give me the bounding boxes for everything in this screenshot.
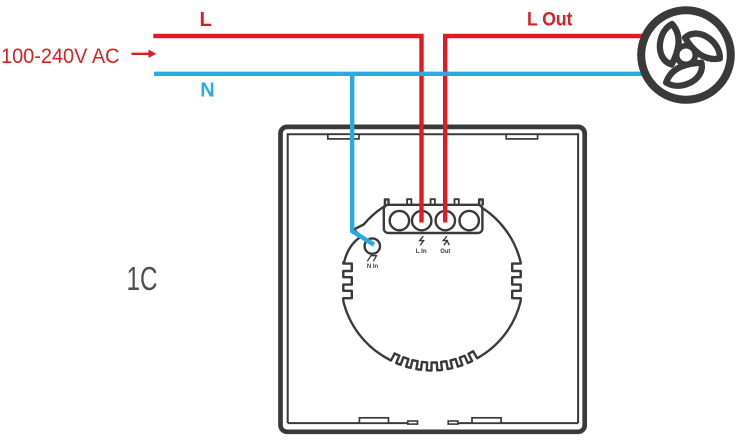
bottom mounting tab right — [472, 418, 501, 423]
terminal screw 4 — [460, 211, 479, 230]
terminal screw 2 (L In) — [412, 211, 431, 230]
terminal block top tab 1 — [407, 199, 411, 205]
fan hub — [677, 46, 696, 65]
round switch module outline — [343, 199, 520, 370]
wire L Out (from Out terminal to fan) — [445, 36, 642, 223]
svg-text:Out: Out — [440, 248, 451, 255]
svg-text:100-240V AC: 100-240V AC — [1, 44, 120, 68]
fan blade 2 — [681, 28, 725, 64]
fan load — [641, 10, 731, 100]
svg-text:L In: L In — [416, 248, 427, 255]
switch outer frame — [281, 127, 585, 432]
svg-text:N In: N In — [367, 263, 378, 270]
terminal screw 3 (Out) — [436, 211, 455, 230]
bottom mounting tab left — [359, 418, 388, 423]
lightning icon L In — [420, 236, 424, 245]
svg-text:1C: 1C — [127, 260, 158, 297]
inner frame bottom-left lip — [408, 421, 418, 424]
svg-text:L: L — [200, 9, 212, 31]
top mounting tab right — [506, 134, 537, 139]
arrow to L/N feed — [132, 50, 157, 58]
N icon — [367, 256, 376, 262]
inner frame bottom-left segment — [288, 422, 418, 424]
terminal block top tab 3 — [455, 199, 459, 205]
switch inner frame (top, left, right edges) — [288, 134, 578, 423]
wire L (live feed to L In terminal) — [153, 36, 421, 223]
terminal screw 1 — [390, 211, 409, 230]
wire N branch to N In terminal — [352, 74, 374, 245]
svg-text:L Out: L Out — [527, 10, 573, 31]
inner frame bottom-right segment — [448, 422, 578, 424]
lightning icon Out (switched) — [443, 236, 447, 245]
fan blade 1 — [660, 24, 679, 65]
terminal block top tab 2 — [431, 199, 435, 205]
fan outer ring — [641, 10, 731, 100]
wire N (neutral feed to fan) — [154, 72, 642, 76]
terminal block — [384, 205, 483, 233]
top mounting tab left — [328, 134, 359, 139]
N In terminal — [365, 238, 380, 253]
fan blade 3 — [663, 57, 707, 93]
inner frame bottom-right lip — [448, 421, 458, 424]
svg-text:N: N — [200, 80, 214, 102]
